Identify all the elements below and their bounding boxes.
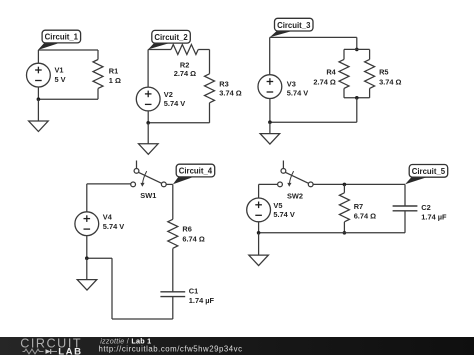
resistor R7: [339, 193, 349, 222]
wire R4 bottom lead: [343, 88, 345, 97]
wire C4 bottom: [112, 318, 173, 320]
label Circuit_1: [38, 30, 81, 50]
svg-text:5.74 V: 5.74 V: [273, 210, 294, 219]
svg-text:Circuit_2: Circuit_2: [154, 33, 188, 42]
CircuitLab logo diode: [46, 349, 58, 354]
svg-text:6.74 Ω: 6.74 Ω: [354, 212, 376, 221]
svg-text:R3: R3: [219, 80, 228, 89]
value label R7 6.74 ohm: [354, 202, 376, 220]
wire V5 bottom lead: [258, 222, 260, 233]
resistor R2: [171, 45, 198, 55]
svg-text:2.74 Ω: 2.74 Ω: [174, 69, 196, 78]
wire parallel bottom bar: [344, 97, 370, 99]
wire C5 top-left: [259, 183, 278, 185]
svg-text:5 V: 5 V: [55, 75, 66, 84]
wire C4 top-left: [87, 183, 131, 185]
wire R7 top lead: [343, 184, 345, 192]
value label V2 5.74 V: [164, 90, 185, 108]
value label C2 1.74 uF: [421, 203, 447, 221]
svg-text:1.74 µF: 1.74 µF: [421, 212, 447, 221]
wire V4 top lead: [86, 184, 88, 212]
value label R4 2.74 ohm: [313, 68, 336, 87]
wire R3 bottom lead: [209, 103, 211, 123]
wire C2 bottom lead: [404, 211, 406, 233]
wire R1 bottom lead: [97, 89, 99, 100]
svg-text:3.74 Ω: 3.74 Ω: [219, 89, 241, 98]
wire C4 left riser: [111, 258, 113, 319]
value label R5 3.74 ohm: [379, 68, 401, 87]
wire to ground 4: [86, 258, 88, 279]
label Circuit_5: [405, 165, 448, 185]
wire C2 bottom: [148, 122, 209, 124]
value label V1 5 V: [55, 66, 66, 85]
node junction V5- / ground: [257, 231, 261, 235]
wire V1 bottom lead: [37, 87, 39, 99]
capacitor C2: [393, 206, 418, 211]
svg-text:6.74 Ω: 6.74 Ω: [182, 235, 204, 244]
node junction V1- / ground: [37, 97, 41, 101]
node junction R4/R5 bottom: [355, 96, 359, 100]
voltage source V5: [247, 198, 271, 222]
value label C1 1.74 uF: [189, 286, 215, 304]
wire C2 top-left: [148, 49, 171, 51]
ground GND5: [249, 255, 269, 266]
value label V3 5.74 V: [287, 80, 308, 98]
wire R4 top lead: [343, 49, 345, 59]
wire C2 top-right: [198, 49, 209, 51]
svg-text:C2: C2: [421, 203, 430, 212]
value label R2 2.74 ohm: [174, 60, 196, 78]
wire R6 to C1: [172, 248, 174, 291]
ground GND2: [139, 144, 159, 155]
wire V4- to riser: [87, 257, 112, 259]
wire V1 top lead: [37, 50, 39, 63]
svg-text:R7: R7: [354, 202, 363, 211]
wire to ground 3: [269, 122, 271, 133]
svg-text:Circuit_3: Circuit_3: [277, 21, 311, 30]
resistor R1: [93, 60, 103, 89]
svg-text:R4: R4: [326, 68, 336, 77]
wire R6 top lead: [172, 184, 174, 219]
ground GND1: [29, 121, 49, 132]
wire R7 bottom lead: [343, 222, 345, 233]
label Circuit_3: [270, 18, 313, 37]
node junction V2- / ground: [146, 121, 150, 125]
wire R5 top lead: [369, 49, 371, 59]
switch SW2: [278, 161, 314, 187]
svg-text:C1: C1: [189, 286, 198, 295]
node junction R4/R5 top: [355, 48, 359, 52]
svg-text:V1: V1: [55, 66, 64, 75]
svg-text:1.74 µF: 1.74 µF: [189, 296, 215, 305]
resistor R6: [168, 219, 178, 248]
svg-text:SW2: SW2: [287, 191, 303, 200]
value label R3 3.74 ohm: [219, 80, 241, 98]
label Circuit_4: [173, 164, 215, 184]
wire to ground 5: [258, 233, 260, 255]
svg-text:R2: R2: [180, 60, 189, 69]
svg-text:V3: V3: [287, 80, 296, 89]
wire V3 bottom lead: [269, 99, 271, 123]
value label V4 5.74 V: [103, 213, 124, 231]
svg-text:V4: V4: [103, 213, 113, 222]
wire SW1 to node: [166, 183, 172, 185]
wire C1 top: [38, 49, 98, 51]
svg-text:R5: R5: [379, 68, 388, 77]
voltage source V4: [75, 212, 99, 236]
node junction R7 bottom: [343, 231, 347, 235]
svg-text:R6: R6: [182, 225, 191, 234]
resistor R4: [339, 59, 349, 88]
node junction R7 top: [343, 183, 347, 187]
capacitor C1: [160, 292, 185, 297]
svg-text:5.74 V: 5.74 V: [287, 89, 308, 98]
wire V2 top lead: [147, 50, 149, 88]
wire parallel top bar: [344, 48, 370, 50]
ground GND3: [260, 134, 280, 145]
svg-text:Circuit_5: Circuit_5: [412, 167, 446, 176]
value label V5 5.74 V: [273, 201, 294, 219]
svg-text:Circuit_4: Circuit_4: [179, 167, 213, 176]
voltage source V3: [258, 75, 282, 99]
value label R1 1 ohm: [109, 66, 121, 85]
svg-text:V5: V5: [273, 201, 282, 210]
wire V3 top lead: [269, 37, 271, 74]
wire V5 top lead: [258, 184, 260, 198]
node junction V3- / ground: [268, 120, 272, 124]
wire C2 top lead: [404, 184, 406, 206]
wire to parallel top: [356, 37, 358, 49]
wire to ground 2: [147, 123, 149, 144]
CircuitLab logo resistor zigzag: [23, 349, 44, 354]
voltage source V1: [27, 63, 51, 87]
wire C3 bottom: [270, 121, 357, 123]
wire V2 bottom lead: [147, 111, 149, 123]
svg-text:3.74 Ω: 3.74 Ω: [379, 78, 401, 87]
footer bar: [0, 337, 474, 355]
svg-text:5.74 V: 5.74 V: [103, 222, 124, 231]
resistor R3: [205, 74, 215, 103]
wire R5 bottom lead: [369, 88, 371, 97]
wire V4 bottom lead: [86, 236, 88, 259]
svg-text:1 Ω: 1 Ω: [109, 76, 121, 85]
svg-text:http://circuitlab.com/cfw5hw29: http://circuitlab.com/cfw5hw29p34vc: [99, 344, 243, 353]
node junction V4- / ground: [85, 256, 89, 260]
svg-text:R1: R1: [109, 66, 118, 75]
wire C5 bottom: [259, 232, 405, 234]
label Circuit_2: [148, 30, 190, 49]
svg-text:5.74 V: 5.74 V: [164, 99, 185, 108]
svg-text:2.74 Ω: 2.74 Ω: [313, 78, 335, 87]
wire C1 bottom lead: [172, 297, 174, 319]
value label R6 6.74 ohm: [182, 225, 204, 244]
wire to ground 1: [37, 99, 39, 121]
resistor R5: [365, 59, 375, 88]
switch SW1: [131, 161, 167, 187]
wire C1 bottom: [38, 98, 98, 100]
voltage source V2: [136, 87, 160, 111]
svg-text:Circuit_1: Circuit_1: [45, 33, 79, 42]
svg-text:SW1: SW1: [140, 191, 156, 200]
wire C3 top: [270, 36, 357, 38]
svg-text:V2: V2: [164, 90, 173, 99]
wire R3 top lead: [209, 50, 211, 74]
wire from parallel bottom: [356, 98, 358, 122]
wire SW2 to C2 node: [313, 183, 405, 185]
wire R1 top lead: [97, 50, 99, 60]
svg-text:LAB: LAB: [58, 347, 82, 355]
ground GND4: [77, 280, 97, 291]
